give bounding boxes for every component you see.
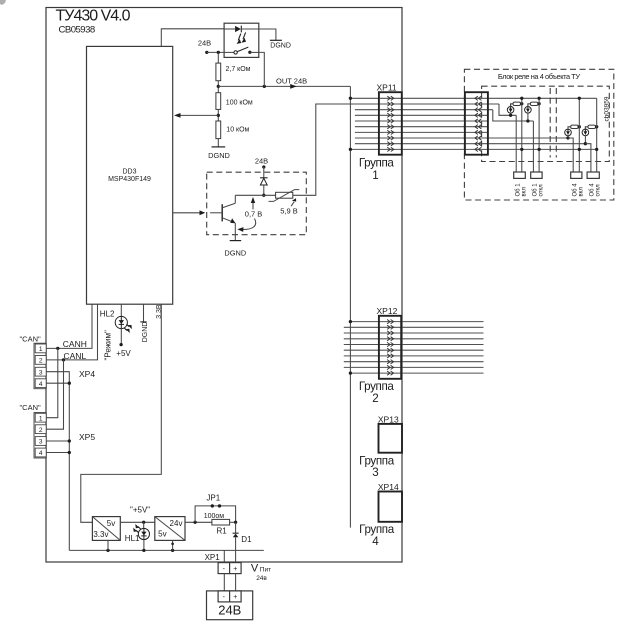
svg-text:"+5V": "+5V" <box>130 506 150 515</box>
svg-text:откл: откл <box>596 184 602 197</box>
wire CANH <box>46 304 92 350</box>
node 24B terminal above snubber box <box>255 156 268 168</box>
ground DGND stub under DD3 <box>140 304 149 342</box>
svg-text:1: 1 <box>39 415 43 422</box>
board outline <box>46 8 402 563</box>
optocoupler LED <box>224 26 259 33</box>
diode D1 <box>233 522 252 562</box>
svg-text:XP11: XP11 <box>377 82 397 92</box>
wire CAN ground bus <box>46 372 71 551</box>
wire DGND bottom rail <box>69 549 263 552</box>
svg-text:HL2: HL2 <box>100 310 115 319</box>
snubber dashed box <box>207 172 307 235</box>
optocoupler light arrows <box>237 32 246 44</box>
optocoupler U1 box <box>224 23 259 57</box>
connector XP1 <box>205 553 242 574</box>
svg-text:сb03959: сb03959 <box>603 96 610 121</box>
wire 24B to opto switch <box>207 51 224 53</box>
svg-text:+: + <box>233 566 237 573</box>
connector relay block <box>465 92 488 155</box>
connector XP12 <box>377 306 402 379</box>
wire vertical to box3 rail <box>578 97 581 172</box>
svg-text:XP5: XP5 <box>79 432 95 442</box>
connector XP12 pins <box>387 320 394 376</box>
svg-text:5v: 5v <box>107 519 115 528</box>
node divider tap <box>217 114 220 117</box>
svg-text:3.3В: 3.3В <box>156 304 163 319</box>
wire reg2 output <box>185 521 212 523</box>
wire vertical to box3 out <box>568 138 573 172</box>
svg-text:2: 2 <box>39 427 43 434</box>
svg-text:Об 4: Об 4 <box>572 183 578 197</box>
resistor 10 кОм <box>216 121 250 139</box>
relay opto 4 <box>582 125 598 145</box>
resistor R1 100om <box>204 513 236 535</box>
wire reg1 ground <box>107 540 109 550</box>
terminal box Ob4 otkl <box>587 172 602 197</box>
svg-text:Об 1: Об 1 <box>515 183 521 197</box>
connector XP4 <box>34 343 95 389</box>
label V Pit 24v <box>251 563 271 582</box>
wire top rail corner down <box>596 98 598 172</box>
svg-text:XP1: XP1 <box>205 553 221 562</box>
svg-text:XP12: XP12 <box>377 306 398 316</box>
svg-text:DGND: DGND <box>142 322 149 343</box>
wire varistor output to XP11 row2 <box>293 104 355 195</box>
terminal box Ob4 vkl <box>571 172 585 197</box>
svg-text:+5V: +5V <box>116 349 131 358</box>
wire CANL <box>46 304 97 361</box>
node 24B top terminal <box>198 38 211 54</box>
relay block inner dashed box <box>482 86 610 161</box>
wire harness group1 rows <box>350 98 596 149</box>
terminal box Ob1 otkl <box>531 172 545 197</box>
connector relay block pins <box>475 96 482 151</box>
svg-text:DGND: DGND <box>224 248 246 257</box>
svg-text:100 кОм: 100 кОм <box>226 100 253 107</box>
node HL1 top junction <box>142 521 145 524</box>
ground DGND transistor <box>224 241 246 258</box>
svg-text:100ом: 100ом <box>204 513 225 520</box>
node JP1 left junction <box>193 521 196 524</box>
svg-text:CANL: CANL <box>64 351 87 361</box>
svg-text:2,7 кОм: 2,7 кОм <box>226 66 251 73</box>
svg-text:DGND: DGND <box>270 42 291 49</box>
svg-text:"CAN": "CAN" <box>20 403 41 412</box>
terminal box Ob1 vkl <box>514 172 528 197</box>
svg-text:XP4: XP4 <box>79 369 95 379</box>
wire harness group2 rows <box>344 322 484 374</box>
connector XP13 <box>378 415 402 453</box>
svg-text:DD3: DD3 <box>122 168 136 175</box>
svg-text:Об 4: Об 4 <box>589 183 595 197</box>
node junction 2.7k top <box>217 51 220 54</box>
svg-text:10 кОм: 10 кОм <box>226 127 249 134</box>
svg-text:XP14: XP14 <box>378 482 399 492</box>
wire vertical to box1 rail <box>520 97 523 172</box>
svg-text:откл: откл <box>539 184 545 197</box>
label Gruppa 4 <box>359 523 395 548</box>
jumper JP1 <box>195 494 236 523</box>
node OUT junction <box>217 85 220 88</box>
svg-text:MSP430F149: MSP430F149 <box>108 176 151 183</box>
svg-text:вкл: вкл <box>579 187 585 197</box>
wire vertical to box4 out <box>585 144 591 172</box>
wire opto switch output down <box>259 52 265 86</box>
svg-text:2: 2 <box>372 392 378 405</box>
IC DD3 MSP430F149 <box>87 46 173 304</box>
label 0,7 B with arrows <box>237 197 262 232</box>
svg-text:5,9 В: 5,9 В <box>280 207 298 216</box>
wire base from DD3 with arrow <box>173 210 206 215</box>
svg-text:3: 3 <box>39 439 43 446</box>
relay block outer dashed box <box>464 69 613 200</box>
wire 10k to ground <box>217 139 219 147</box>
svg-text:вкл: вкл <box>522 187 528 197</box>
label 5,9 B with arrow <box>280 198 298 216</box>
ground DGND divider <box>208 147 230 160</box>
svg-text:3: 3 <box>39 369 43 376</box>
svg-text:4: 4 <box>372 535 379 548</box>
svg-text:"CAN": "CAN" <box>20 335 41 344</box>
svg-text:4: 4 <box>39 381 43 388</box>
svg-text:V: V <box>251 563 259 575</box>
svg-text:2: 2 <box>39 358 43 365</box>
regulator 24v/5v <box>155 517 185 541</box>
wire DD3 top to optocoupler <box>161 29 224 47</box>
wire XP1 to battery <box>224 574 235 591</box>
wire row2 staircase to relay 1 <box>499 104 516 115</box>
svg-text:ТУ430 V4.0: ТУ430 V4.0 <box>56 8 131 25</box>
resistor 100 кОм <box>216 93 253 110</box>
svg-text:+: + <box>233 594 237 601</box>
break dashed lines <box>550 88 556 158</box>
optocoupler switch <box>224 47 259 54</box>
resistor 2,7 кОм <box>216 63 251 81</box>
wire between regulators <box>120 521 155 523</box>
svg-text:1: 1 <box>372 169 378 182</box>
svg-text:R1: R1 <box>217 527 228 536</box>
label Gruppa 1 <box>359 157 395 182</box>
wire rail to XP1 minus <box>223 550 225 562</box>
wire CANH to XP5 pin1 <box>46 348 58 417</box>
relay opto 2 <box>525 102 541 123</box>
wire 100k to tap <box>217 109 219 121</box>
LED HL2 <box>100 304 132 333</box>
svg-text:24В: 24В <box>218 603 241 618</box>
LED HL1 <box>125 522 150 550</box>
connector XP14 <box>378 482 402 522</box>
svg-text:Об 1: Об 1 <box>532 183 538 197</box>
wire vertical to box1 out <box>515 115 517 172</box>
battery 24B box <box>207 591 253 620</box>
svg-text:XP13: XP13 <box>378 415 399 425</box>
scan artifact top-left corner <box>0 0 6 5</box>
svg-text:CANH: CANH <box>63 339 87 349</box>
wire collector rail <box>235 194 275 196</box>
node R1 right junction <box>234 521 237 524</box>
node +5V terminal <box>116 328 131 358</box>
svg-text:СВ05938: СВ05938 <box>59 24 95 35</box>
relay opto 3 <box>565 125 581 140</box>
wire OUT 24B <box>218 76 350 88</box>
wire 24B down to diode <box>263 167 265 178</box>
svg-text:4: 4 <box>39 450 43 457</box>
node bus junctions group2 <box>349 320 352 375</box>
svg-text:24в: 24в <box>256 575 267 582</box>
wire 3.3B rail <box>81 304 162 522</box>
wire reg2 ground <box>171 540 174 550</box>
svg-text:Группа: Группа <box>359 157 395 170</box>
node collector junction <box>262 194 265 197</box>
svg-text:0,7 В: 0,7 В <box>245 209 263 218</box>
ground DGND at opto <box>270 40 291 49</box>
svg-text:Блок реле на 4 объекта ТУ: Блок реле на 4 объекта ТУ <box>498 72 580 81</box>
svg-text:3: 3 <box>372 466 378 479</box>
diode VD flyback <box>260 178 268 196</box>
wire emitter to ground <box>234 223 236 241</box>
svg-text:JP1: JP1 <box>206 494 220 503</box>
svg-text:D1: D1 <box>241 535 252 544</box>
regulator 5v/3.3v <box>92 517 120 541</box>
node bus junctions group1 <box>349 97 352 151</box>
wire tap to DD3 with arrow <box>174 113 218 118</box>
connector XP11 <box>377 82 402 154</box>
wire CANL to XP5 pin2 <box>46 360 63 429</box>
wire row3 staircase to relay 2 <box>493 110 534 121</box>
label Gruppa 2 <box>359 380 395 405</box>
varistor RU 5,9 B <box>269 190 300 202</box>
node row10 at corner vertical <box>595 148 598 151</box>
wire vertical to box2 out <box>532 121 534 172</box>
connector XP11 pins <box>387 96 394 151</box>
svg-text:OUT 24В: OUT 24В <box>276 76 307 85</box>
relay opto 1 <box>507 102 523 117</box>
label Gruppa 3 <box>359 455 395 479</box>
svg-text:3.3v: 3.3v <box>93 530 108 539</box>
svg-text:1: 1 <box>39 346 43 353</box>
transistor Q1 <box>210 195 235 223</box>
wire bus vertical from OUT 24B <box>349 86 351 527</box>
svg-text:Пит: Пит <box>260 567 271 574</box>
wire R2.7k to OUT node <box>217 81 219 93</box>
svg-text:"Режим": "Режим" <box>104 330 113 361</box>
svg-text:DGND: DGND <box>208 151 230 160</box>
svg-text:5v: 5v <box>158 529 166 538</box>
svg-text:24v: 24v <box>170 519 183 528</box>
wire junction down to R 2.7k <box>217 52 219 63</box>
svg-text:24В: 24В <box>198 38 211 47</box>
wire vertical to box2 rail <box>537 97 540 172</box>
svg-text:HL1: HL1 <box>125 534 140 543</box>
connector XP5 <box>34 413 95 459</box>
wire opto cathode to DGND <box>259 29 276 40</box>
svg-text:24В: 24В <box>255 156 268 165</box>
